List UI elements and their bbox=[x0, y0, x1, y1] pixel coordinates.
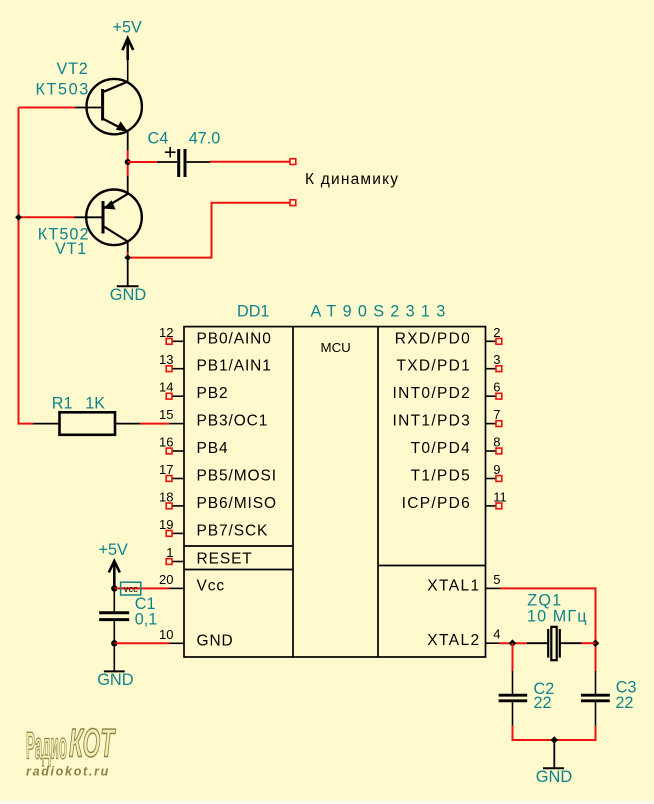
label C3 22 bbox=[615, 678, 636, 711]
wire (red) down to C2 bbox=[512, 643, 514, 671]
bottom window edge strip bbox=[0, 801, 654, 804]
node H (bottom junction) bbox=[551, 736, 559, 744]
node E (GND junction) bbox=[111, 640, 117, 646]
IC DD1 AT90S2313 body bbox=[184, 327, 486, 657]
wire (red) node to C4 bbox=[128, 161, 157, 163]
svg-text:XTAL2: XTAL2 bbox=[427, 632, 480, 649]
svg-text:5: 5 bbox=[493, 572, 500, 587]
svg-text:10 МГц: 10 МГц bbox=[527, 608, 588, 626]
pin 7 INT1/PD3 bbox=[393, 407, 502, 430]
svg-text:RXD/PD0: RXD/PD0 bbox=[395, 330, 471, 347]
svg-text:PB1/AIN1: PB1/AIN1 bbox=[197, 358, 272, 375]
transistor VT2 bbox=[75, 79, 142, 134]
svg-text:15: 15 bbox=[159, 407, 173, 422]
svg-text:19: 19 bbox=[159, 517, 173, 532]
capacitor C3 bbox=[581, 671, 610, 726]
svg-text:PB6/MISO: PB6/MISO bbox=[197, 495, 277, 512]
svg-text:GND: GND bbox=[110, 286, 147, 304]
svg-text:R1: R1 bbox=[52, 395, 73, 413]
pin 18 PB6/MISO bbox=[159, 489, 277, 512]
svg-text:DD1: DD1 bbox=[237, 302, 269, 320]
svg-text:КОТ: КОТ bbox=[69, 722, 116, 766]
wire (red) C4 to terminal 1 bbox=[210, 161, 290, 163]
pin 3 TXD/PD1 bbox=[396, 352, 501, 375]
svg-text:3: 3 bbox=[493, 352, 500, 367]
pin 5 XTAL1 bbox=[427, 572, 500, 595]
wire VT1 emitter lead bbox=[127, 176, 129, 194]
svg-text:4: 4 bbox=[493, 627, 500, 642]
wire to bottom ground bbox=[553, 740, 555, 768]
pin 13 PB1/AIN1 bbox=[159, 352, 272, 375]
label C4 47.0 bbox=[148, 130, 221, 148]
svg-text:VT1: VT1 bbox=[55, 240, 87, 258]
ground (bottom right) bbox=[543, 767, 564, 769]
svg-text:1K: 1K bbox=[85, 395, 105, 413]
wire (red) pin 4 XTAL2 net bbox=[499, 642, 528, 644]
svg-text:PB2: PB2 bbox=[197, 385, 229, 402]
wire (red) VT2 base branch bbox=[19, 107, 76, 109]
wire (red) pin 5 XTAL1 net bbox=[500, 588, 596, 671]
svg-text:18: 18 bbox=[159, 489, 173, 504]
logo radiokot bbox=[26, 722, 116, 779]
wire (red) terminal 2 to VT1 collector node bbox=[128, 203, 290, 258]
svg-text:GND: GND bbox=[197, 632, 234, 649]
wire (red) to pin 10 bbox=[114, 642, 169, 644]
svg-text:Vcc: Vcc bbox=[197, 577, 226, 594]
svg-text:vcc: vcc bbox=[124, 584, 139, 595]
pin 17 PB5/MOSI bbox=[159, 462, 277, 485]
svg-text:10: 10 bbox=[159, 627, 173, 642]
terminal pad 2 bbox=[290, 200, 296, 206]
node D (Vcc junction) bbox=[111, 585, 117, 591]
transistor VT1 bbox=[74, 190, 142, 246]
wire C1 to ground bbox=[113, 643, 115, 671]
svg-text:17: 17 bbox=[159, 462, 173, 477]
pin 10 GND bbox=[159, 627, 234, 650]
svg-text:2: 2 bbox=[493, 325, 500, 340]
pin 1 RESET bbox=[166, 545, 252, 568]
svg-text:47.0: 47.0 bbox=[189, 130, 221, 148]
svg-text:КТ503: КТ503 bbox=[36, 81, 90, 99]
svg-text:11: 11 bbox=[493, 489, 507, 504]
svg-text:12: 12 bbox=[159, 325, 173, 340]
pin 9 T1/PD5 bbox=[411, 462, 502, 485]
wire node to ground bbox=[127, 258, 129, 287]
svg-text:6: 6 bbox=[493, 380, 500, 395]
label C1 0,1 bbox=[135, 595, 158, 629]
capacitor C2 bbox=[499, 671, 528, 726]
svg-text:INT0/PD2: INT0/PD2 bbox=[393, 385, 471, 402]
svg-text:C4: C4 bbox=[148, 130, 169, 148]
node G (crystal right junction) bbox=[592, 639, 600, 647]
ground (under C1) bbox=[104, 670, 125, 672]
wire (red) left bus bbox=[19, 108, 34, 424]
pin 15 PB3/OC1 bbox=[159, 407, 268, 430]
svg-text:Радио: Радио bbox=[26, 726, 67, 768]
pin 8 T0/PD4 bbox=[411, 435, 502, 458]
pin 12 PB0/AIN0 bbox=[159, 325, 272, 348]
power +5V (vcc rail) bbox=[99, 541, 128, 589]
svg-text:INT1/PD3: INT1/PD3 bbox=[393, 413, 471, 430]
wire (red) R1 to pin 15 bbox=[140, 423, 169, 425]
svg-text:radiokot.ru: radiokot.ru bbox=[26, 764, 110, 778]
pin 2 RXD/PD0 bbox=[395, 325, 502, 348]
label R1 1K bbox=[52, 395, 106, 413]
svg-text:AT90S2313: AT90S2313 bbox=[311, 302, 452, 320]
svg-text:MCU: MCU bbox=[321, 340, 351, 355]
svg-text:1: 1 bbox=[166, 545, 173, 560]
svg-text:PB5/MOSI: PB5/MOSI bbox=[197, 468, 277, 485]
svg-text:22: 22 bbox=[534, 694, 552, 712]
resistor R1 bbox=[33, 412, 141, 435]
svg-text:T1/PD5: T1/PD5 bbox=[411, 468, 471, 485]
svg-text:7: 7 bbox=[493, 407, 500, 422]
svg-text:+5V: +5V bbox=[113, 19, 142, 37]
pin 19 PB7/SCK bbox=[159, 517, 268, 540]
svg-text:RESET: RESET bbox=[197, 551, 253, 568]
wire collector VT2 to +5V bbox=[127, 58, 129, 82]
svg-text:20: 20 bbox=[159, 572, 173, 587]
node B (junction below VT1) bbox=[124, 254, 131, 261]
svg-text:GND: GND bbox=[97, 671, 134, 689]
label C2 22 bbox=[534, 680, 555, 712]
net label vcc bbox=[121, 582, 141, 595]
label ZQ1 10 МГц bbox=[527, 592, 588, 626]
pin 11 ICP/PD6 bbox=[402, 489, 507, 512]
capacitor C1 bbox=[99, 588, 129, 643]
wire (red) node column bbox=[127, 150, 129, 177]
wire VT2 emitter to node bbox=[127, 132, 129, 151]
terminal pad 1 bbox=[290, 159, 296, 165]
svg-text:0,1: 0,1 bbox=[135, 611, 158, 629]
svg-text:XTAL1: XTAL1 bbox=[427, 577, 480, 594]
svg-text:VT2: VT2 bbox=[57, 60, 89, 78]
wire (red) bottom rail bbox=[513, 726, 596, 741]
svg-text:GND: GND bbox=[536, 768, 573, 786]
svg-text:13: 13 bbox=[159, 352, 173, 367]
node F (XTAL2 junction) bbox=[509, 639, 517, 647]
svg-text:К динамику: К динамику bbox=[305, 171, 399, 188]
pin 14 PB2 bbox=[159, 380, 228, 403]
pin 4 XTAL2 bbox=[427, 627, 500, 650]
svg-text:TXD/PD1: TXD/PD1 bbox=[396, 358, 471, 375]
pin 20 Vcc bbox=[159, 572, 225, 595]
svg-text:PB0/AIN0: PB0/AIN0 bbox=[197, 330, 272, 347]
node C (junction left bus) bbox=[15, 214, 22, 221]
wire (red) VT1 base branch bbox=[19, 216, 75, 218]
svg-text:8: 8 bbox=[493, 435, 500, 450]
svg-text:ICP/PD6: ICP/PD6 bbox=[402, 495, 471, 512]
pin 6 INT0/PD2 bbox=[393, 380, 502, 403]
svg-text:9: 9 bbox=[493, 462, 500, 477]
svg-text:PB3/OC1: PB3/OC1 bbox=[197, 413, 269, 430]
crystal ZQ1 bbox=[527, 627, 596, 660]
svg-text:PB4: PB4 bbox=[197, 440, 229, 457]
svg-text:+5V: +5V bbox=[99, 541, 128, 559]
wire (red) Vcc to pin 20 bbox=[114, 587, 169, 589]
power +5V (top) bbox=[113, 19, 142, 60]
capacitor C4 bbox=[157, 147, 210, 177]
pin 16 PB4 bbox=[159, 435, 228, 458]
svg-text:PB7/SCK: PB7/SCK bbox=[197, 522, 269, 539]
ground (under VT1) bbox=[117, 285, 139, 287]
svg-text:T0/PD4: T0/PD4 bbox=[411, 440, 471, 457]
svg-text:16: 16 bbox=[159, 435, 173, 450]
svg-text:22: 22 bbox=[615, 694, 633, 712]
wire VT1 collector to node bbox=[127, 241, 129, 254]
svg-text:14: 14 bbox=[159, 380, 173, 395]
node A (junction at C4 tap) bbox=[125, 159, 131, 165]
